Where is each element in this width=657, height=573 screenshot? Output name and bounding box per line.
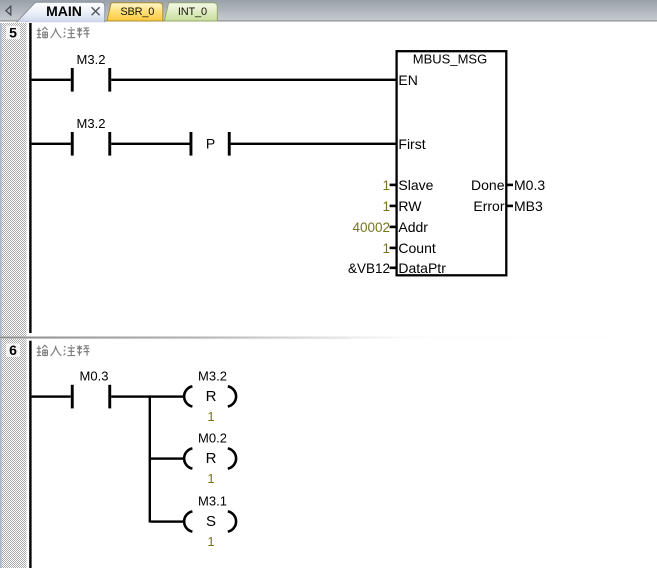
pin Done bbox=[471, 177, 513, 193]
coil S M3.1 bbox=[184, 494, 236, 550]
svg-text:First: First bbox=[398, 136, 425, 152]
svg-text:Count: Count bbox=[398, 240, 435, 256]
svg-text:40002: 40002 bbox=[352, 220, 390, 235]
svg-text:1: 1 bbox=[382, 241, 390, 256]
wire rung rail to contact M0.3 bbox=[32, 395, 71, 397]
svg-text:R: R bbox=[206, 450, 217, 467]
coil R M0.2 bbox=[184, 431, 236, 487]
network separator bbox=[0, 337, 657, 340]
svg-text:INT_0: INT_0 bbox=[178, 6, 207, 18]
pin DataPtr bbox=[390, 260, 447, 276]
svg-text:1: 1 bbox=[207, 534, 214, 549]
svg-text:Slave: Slave bbox=[398, 177, 433, 193]
svg-text:DataPtr: DataPtr bbox=[398, 260, 446, 276]
svg-text:S: S bbox=[206, 513, 216, 530]
pin Error bbox=[473, 198, 513, 214]
coil R M3.2 bbox=[184, 369, 236, 424]
network 5 comment 输入注释 bbox=[37, 27, 90, 38]
svg-text:&VB12: &VB12 bbox=[348, 261, 390, 276]
svg-text:EN: EN bbox=[398, 72, 417, 88]
pin Addr bbox=[390, 219, 429, 235]
svg-text:MB3: MB3 bbox=[514, 198, 543, 214]
network 5 margin bbox=[0, 23, 27, 336]
svg-text:1: 1 bbox=[207, 471, 214, 486]
wire branch to coil M3.1 bbox=[151, 520, 185, 522]
network 6 margin bbox=[0, 339, 27, 568]
svg-text:Error: Error bbox=[473, 198, 504, 214]
wire rung2 rail to contact bbox=[32, 143, 71, 145]
svg-text:M3.1: M3.1 bbox=[198, 494, 227, 509]
svg-text:5: 5 bbox=[9, 24, 17, 40]
wire rung1 rail to contact bbox=[32, 79, 71, 81]
wire contact to branch bbox=[111, 395, 150, 397]
svg-text:M0.2: M0.2 bbox=[198, 431, 227, 446]
svg-text:SBR_0: SBR_0 bbox=[120, 6, 154, 18]
svg-text:6: 6 bbox=[9, 342, 17, 358]
tab bar bbox=[0, 0, 657, 22]
wire branch to coil M0.2 bbox=[151, 457, 185, 459]
svg-text:Done: Done bbox=[471, 177, 505, 193]
contact M3.2 rung2 bbox=[71, 116, 111, 156]
svg-text:R: R bbox=[206, 388, 217, 405]
tab MAIN close button bbox=[92, 7, 100, 15]
svg-text:M0.3: M0.3 bbox=[80, 369, 109, 384]
contact P positive edge bbox=[190, 132, 231, 156]
svg-text:M3.2: M3.2 bbox=[198, 369, 227, 384]
tab MAIN bbox=[17, 2, 105, 22]
svg-text:MBUS_MSG: MBUS_MSG bbox=[413, 52, 487, 67]
svg-text:1: 1 bbox=[382, 199, 390, 214]
svg-text:MAIN: MAIN bbox=[46, 3, 82, 19]
branch node vertical bbox=[149, 395, 151, 522]
function block MBUS_MSG bbox=[397, 51, 507, 275]
svg-text:M0.3: M0.3 bbox=[514, 177, 545, 193]
nav arrow bbox=[6, 6, 11, 15]
svg-text:M3.2: M3.2 bbox=[77, 52, 106, 67]
left power rail network 6 bbox=[29, 341, 31, 568]
tab INT_0 bbox=[164, 3, 217, 21]
network 6 comment 输入注释 bbox=[37, 345, 90, 356]
wire branch to coil M3.2 bbox=[151, 395, 185, 397]
svg-text:1: 1 bbox=[207, 409, 214, 424]
pin RW bbox=[390, 198, 423, 214]
tab SBR_0 bbox=[107, 3, 163, 21]
wire rung2 contact to P bbox=[111, 143, 189, 145]
contact M0.3 bbox=[71, 369, 111, 409]
svg-text:RW: RW bbox=[398, 198, 422, 214]
contact M3.2 rung1 bbox=[71, 52, 111, 92]
svg-text:P: P bbox=[206, 135, 215, 151]
svg-text:1: 1 bbox=[382, 178, 390, 193]
wire rung1 contact to EN bbox=[111, 79, 395, 81]
pin Count bbox=[390, 240, 436, 256]
left power rail network 5 bbox=[29, 23, 31, 333]
svg-text:Addr: Addr bbox=[398, 219, 428, 235]
pin Slave bbox=[390, 177, 434, 193]
wire rung2 P to First bbox=[231, 143, 396, 145]
svg-text:M3.2: M3.2 bbox=[77, 116, 106, 131]
